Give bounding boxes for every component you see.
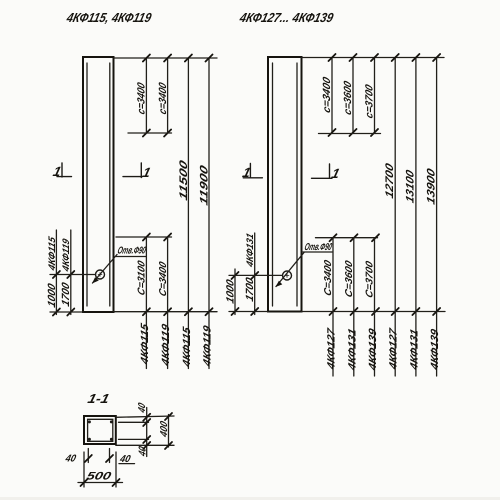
baseline extension right of left column bottom xyxy=(114,311,218,313)
svg-text:С=3400: С=3400 xyxy=(323,259,334,298)
extension line outer-top of section xyxy=(116,416,174,417)
dim line C=3400 with labels xyxy=(158,237,172,369)
left-side dim line 1000 (right drawing) xyxy=(225,269,239,315)
svg-text:С=3100: С=3100 xyxy=(137,259,148,297)
svg-text:Отв.Ф90: Отв.Ф90 xyxy=(303,242,333,253)
overall dim line 13900 xyxy=(426,54,441,376)
rebar dots xyxy=(88,420,113,440)
dim line c=3700 (right) xyxy=(364,54,378,136)
top extension line (right) xyxy=(302,57,445,59)
label 40 with underline (section below-right) xyxy=(118,454,135,465)
baseline extension right of right column bottom xyxy=(302,311,446,313)
top line of C-dims (left drawing bottom) xyxy=(116,234,172,241)
dim line 40/40 vertical (section right) xyxy=(137,401,150,458)
dim line C=3600 with labels (right) xyxy=(344,238,358,376)
hole circle (Отв. d90) in left column xyxy=(96,270,105,279)
svg-text:с=3400: с=3400 xyxy=(157,81,169,116)
svg-text:1700: 1700 xyxy=(244,276,256,303)
svg-text:С=3700: С=3700 xyxy=(365,260,376,300)
label Отв.Ф90 (right column) xyxy=(303,242,333,253)
svg-text:1000: 1000 xyxy=(225,278,237,305)
extension line at hole level (left) xyxy=(50,274,96,276)
section mark 1 (right of right column) xyxy=(312,164,342,181)
svg-text:С=3600: С=3600 xyxy=(344,259,355,299)
left-side dim line 4КФ115 / 1000 xyxy=(46,230,60,316)
ticks on baseline left drawing xyxy=(143,308,171,315)
svg-text:4КФ131: 4КФ131 xyxy=(409,328,421,373)
left column outline xyxy=(83,57,114,312)
extension line at column bottom (right drawing) xyxy=(229,311,268,313)
extension line at column bottom (left) xyxy=(50,311,83,313)
dim line C=3700 with labels (right) xyxy=(365,238,379,376)
label Отв.Ф90 (left column) xyxy=(116,246,147,257)
svg-text:500: 500 xyxy=(85,471,113,483)
lower line of c-dims xyxy=(128,132,172,134)
extension line inner-top of section xyxy=(119,421,149,423)
svg-text:с=3600: с=3600 xyxy=(342,80,354,117)
svg-text:Отв.Ф90: Отв.Ф90 xyxy=(116,246,147,257)
svg-text:11500: 11500 xyxy=(178,158,190,202)
svg-text:4КФ139: 4КФ139 xyxy=(367,327,379,373)
section mark 1 (left of left column) xyxy=(52,163,72,179)
extension line outer-bottom of section xyxy=(116,444,174,446)
svg-text:4КФ115: 4КФ115 xyxy=(181,325,193,370)
svg-text:1000: 1000 xyxy=(46,282,58,309)
lower line of c-dims (right) xyxy=(319,133,381,135)
svg-text:4КФ131: 4КФ131 xyxy=(347,327,359,373)
overall dim line 11900 xyxy=(199,55,213,369)
dim line C=3400 with labels (right) xyxy=(323,238,337,376)
svg-text:4КФ119: 4КФ119 xyxy=(202,324,214,369)
svg-text:с=3400: с=3400 xyxy=(321,76,333,115)
section inner square xyxy=(88,419,113,441)
section mark 1 (left of right column) xyxy=(241,164,262,180)
svg-text:С=3400: С=3400 xyxy=(158,260,169,298)
dim line 400 (section far right) xyxy=(159,413,172,449)
top extension line xyxy=(114,57,218,59)
dim line C=3100 with labels xyxy=(137,237,151,369)
svg-text:4КФ115, 4КФ119: 4КФ115, 4КФ119 xyxy=(64,10,153,25)
dim 500 (section bottom) xyxy=(78,452,123,487)
svg-text:4КФ127: 4КФ127 xyxy=(326,326,338,372)
left-side dim line 4КФ131 / 1700 (right drawing) xyxy=(244,232,258,315)
lower extension lines from rebar (section) xyxy=(85,449,113,463)
ticks on baseline right drawing xyxy=(330,308,380,315)
dim line c=3400 (right) xyxy=(321,54,335,136)
svg-text:4КФ139: 4КФ139 xyxy=(429,328,441,373)
svg-text:13900: 13900 xyxy=(426,166,438,206)
svg-text:4КФ115: 4КФ115 xyxy=(139,321,151,367)
extension line at hole level (right drawing) xyxy=(229,274,283,276)
svg-text:12700: 12700 xyxy=(384,161,396,200)
extension line inner-bottom of section xyxy=(119,438,149,440)
overall dim line 11500 xyxy=(178,55,192,369)
svg-text:с=3400: с=3400 xyxy=(136,81,148,116)
dim line c=3400 (first) xyxy=(136,55,150,137)
right column outline xyxy=(268,57,302,312)
svg-text:4КФ119: 4КФ119 xyxy=(61,237,72,274)
section outer square xyxy=(84,416,116,444)
svg-text:4КФ131: 4КФ131 xyxy=(245,232,256,269)
svg-text:4КФ115: 4КФ115 xyxy=(47,235,58,273)
leader line with arrow to hole (left column) xyxy=(92,255,117,284)
dim line c=3600 (right) xyxy=(342,54,356,136)
leader line with arrow to hole (right column) xyxy=(276,253,305,288)
scan shadow bottom edge xyxy=(0,497,500,500)
overall dim line 12700 xyxy=(384,54,399,376)
svg-text:4КФ119: 4КФ119 xyxy=(160,323,172,369)
overall dim line 13100 xyxy=(405,54,420,376)
svg-text:4КФ127... 4КФ139: 4КФ127... 4КФ139 xyxy=(237,10,335,25)
svg-text:1-1: 1-1 xyxy=(86,391,111,406)
hole circle (Отв. d90) in right column xyxy=(283,271,292,280)
svg-text:4КФ127: 4КФ127 xyxy=(388,326,400,372)
section mark 1 (right of left column) xyxy=(123,163,152,180)
dim line c=3400 (second) xyxy=(157,55,171,137)
top line of C-dims (right drawing bottom) xyxy=(316,234,380,241)
svg-text:11900: 11900 xyxy=(199,163,211,207)
left-side dim line 4КФ119 / 1700 xyxy=(60,230,74,316)
svg-text:1700: 1700 xyxy=(60,281,72,308)
svg-text:13100: 13100 xyxy=(405,168,417,205)
svg-text:с=3700: с=3700 xyxy=(364,83,376,120)
